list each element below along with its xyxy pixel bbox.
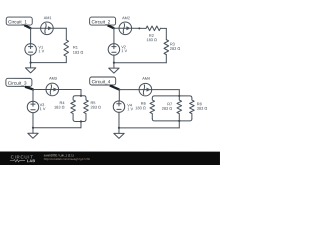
CircuitLab logo: [10, 154, 35, 163]
svg-text:LAB: LAB: [27, 159, 36, 163]
flag pointer 1: [24, 25, 30, 28]
node corner c3: [32, 88, 34, 90]
wire top left c4: [119, 89, 139, 91]
node dot c3 top: [80, 95, 82, 97]
wire V2 bottom: [113, 55, 115, 63]
wire top left c1: [31, 27, 41, 29]
svg-text:AM2: AM2: [122, 16, 130, 20]
parallel rail top c3: [73, 96, 86, 98]
wire feed bottom c4: [178, 121, 180, 128]
wire bottom c3: [33, 127, 81, 129]
node corner c4: [118, 89, 120, 91]
svg-text:Circuit_3: Circuit_3: [8, 81, 27, 86]
svg-text:1 V: 1 V: [127, 106, 133, 111]
wire bottom c2: [114, 62, 166, 64]
node dot c4 top: [178, 95, 180, 97]
resistor R3: [164, 40, 180, 55]
wire feed down c3: [80, 89, 82, 95]
wire top left c2: [114, 27, 119, 29]
wire R3 top lead: [165, 28, 167, 39]
wire bottom c4: [119, 127, 179, 129]
wire V4 top: [118, 90, 120, 101]
voltage source V2: [108, 44, 127, 56]
ammeter AM3: [46, 77, 59, 96]
parallel rail top c4: [152, 96, 192, 98]
svg-text:183 Ω: 183 Ω: [73, 50, 84, 55]
svg-text:1 V: 1 V: [38, 48, 44, 53]
flag label Circuit_3: [6, 78, 32, 86]
node junction c4: [118, 127, 120, 129]
resistor R2: [146, 26, 160, 42]
wire V1 bottom: [30, 55, 32, 63]
flag pointer 4: [110, 85, 119, 89]
svg-text:http://circuitlab.com/c/ae4gh7: http://circuitlab.com/c/ae4gh7gz7rc65: [44, 157, 91, 161]
ground c4: [114, 128, 124, 139]
voltage source V1: [25, 44, 45, 56]
flag pointer 3: [25, 87, 33, 90]
node corner c2: [113, 27, 115, 29]
node corner c1: [30, 27, 32, 29]
node dot c4 bottom: [178, 120, 180, 122]
svg-text:1 V: 1 V: [121, 48, 127, 53]
svg-text:283 Ω: 283 Ω: [162, 106, 173, 111]
wire R3 bottom lead: [165, 55, 167, 63]
resistor R6: [135, 98, 154, 119]
node junction c1: [30, 61, 32, 63]
ammeter AM1: [41, 16, 54, 34]
ground c3: [28, 128, 38, 139]
flag label Circuit_4: [90, 77, 116, 85]
wire V3 top: [32, 89, 34, 101]
footer bar: [0, 152, 220, 166]
voltage source V3: [27, 101, 46, 113]
wire R1 top lead: [65, 28, 67, 40]
wire V1 top: [30, 28, 32, 43]
svg-text:283 Ω: 283 Ω: [90, 104, 101, 109]
wire V2 top: [113, 28, 115, 43]
wire AM4 to feed: [152, 89, 180, 91]
flag label Circuit_1: [6, 17, 32, 25]
resistor R4: [54, 98, 75, 119]
wire V4 bottom: [118, 112, 120, 128]
resistor R5: [84, 98, 101, 119]
resistor R8: [190, 98, 208, 119]
node dot c3 bottom: [80, 120, 82, 122]
svg-text:Circuit_4: Circuit_4: [92, 79, 111, 84]
svg-text:Circuit_2: Circuit_2: [92, 19, 111, 24]
node junction c2: [113, 62, 115, 64]
voltage source V4: [113, 101, 133, 113]
wire bottom c1: [31, 62, 67, 64]
wire V3 bottom: [32, 113, 34, 128]
wire AM3 to feed: [59, 88, 81, 90]
wire feed down c4: [178, 90, 180, 96]
svg-text:1 V: 1 V: [40, 106, 46, 111]
svg-text:AM1: AM1: [44, 16, 52, 20]
svg-text:Circuit_1: Circuit_1: [8, 19, 27, 24]
flag label Circuit_2: [90, 17, 116, 25]
parallel rail bottom c3: [73, 119, 86, 121]
svg-text:183 Ω: 183 Ω: [146, 37, 157, 42]
resistor R1: [64, 40, 83, 56]
ammeter AM4: [139, 77, 152, 96]
node junction c3: [32, 127, 34, 129]
wire top left c3: [33, 88, 46, 90]
svg-text:183 Ω: 183 Ω: [54, 104, 65, 109]
wire R1 bottom lead: [65, 56, 67, 62]
parallel rail bottom c4: [152, 119, 192, 121]
resistor R7: [162, 96, 182, 121]
svg-text:AM3: AM3: [49, 77, 57, 81]
svg-text:AM4: AM4: [142, 77, 150, 81]
wire AM2 to R2: [132, 27, 146, 29]
svg-text:283 Ω: 283 Ω: [170, 46, 181, 51]
wire R2 to corner: [160, 27, 166, 29]
ground c1: [25, 63, 35, 73]
flag pointer 2: [108, 25, 114, 28]
ground c2: [109, 63, 119, 73]
node dot c2 mid: [138, 27, 140, 29]
ammeter AM2: [119, 16, 132, 34]
svg-text:183 Ω: 183 Ω: [135, 105, 146, 110]
wire top right c1: [53, 27, 66, 29]
svg-text:383 Ω: 383 Ω: [197, 106, 208, 111]
wire feed bottom c3: [80, 121, 82, 127]
